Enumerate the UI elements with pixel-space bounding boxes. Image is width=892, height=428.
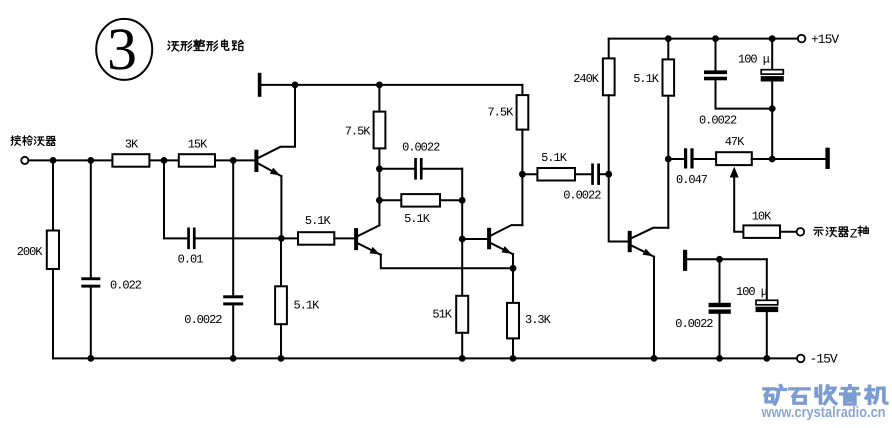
resistor 5.1K collector: [663, 59, 675, 95]
title 波形整形电路: [168, 40, 243, 51]
svg-text:0.0022: 0.0022: [675, 317, 713, 331]
supply bar top left: [258, 73, 261, 96]
node 3K-15K junction: [161, 157, 168, 164]
wire 200K branch lower: [52, 269, 54, 358]
transistor Q4: [628, 228, 668, 257]
node +15V rail 100u junction: [769, 35, 776, 42]
watermark 矿石收音机: [764, 386, 887, 404]
resistor 5.1K emitter: [275, 286, 287, 324]
resistor 5.1K coupling: [537, 168, 575, 181]
resistor 10K: [743, 225, 780, 238]
svg-text:5.1K: 5.1K: [541, 151, 568, 165]
wire -15V rail: [53, 357, 797, 359]
svg-text:3.3K: 3.3K: [525, 313, 552, 327]
resistor 3.3K: [507, 303, 519, 339]
svg-text:100 μ: 100 μ: [736, 285, 768, 299]
resistor 7.5K right: [517, 95, 529, 130]
node Q4 collector output junction: [665, 156, 672, 163]
svg-text:51K: 51K: [432, 308, 452, 322]
svg-text:+15V: +15V: [811, 32, 839, 47]
wire 0.01 to node E1: [196, 237, 282, 239]
input terminal 接检波器: [21, 157, 28, 164]
label 接检波器: [11, 136, 55, 146]
terminal bar lower right: [684, 250, 687, 270]
wire 5.1K base to Q2: [334, 237, 354, 239]
wire 0.0022 bypass lower: [716, 80, 773, 108]
node rail 100u lower junction: [763, 355, 770, 362]
svg-text:47K: 47K: [725, 135, 745, 149]
svg-text:240K: 240K: [573, 72, 600, 86]
capacitor 100u lower: [756, 300, 778, 311]
wire coupling row left: [522, 173, 537, 175]
resistor 51K: [456, 296, 468, 333]
svg-text:7.5K: 7.5K: [345, 125, 372, 139]
node rail 51K junction: [459, 355, 466, 362]
wire 7.5K right column lower to Q3 collector: [521, 130, 523, 226]
node B cap-5.1K junction: [459, 197, 466, 204]
resistor 240K: [603, 58, 615, 95]
capacitor 0.0022 lower: [709, 303, 731, 314]
wire Q2 emitter down and right: [381, 255, 513, 268]
wire 100u lower column bottom: [766, 312, 768, 359]
svg-text:3K: 3K: [125, 138, 139, 152]
node rail Q4 emitter junction: [651, 355, 658, 362]
wire 7.5K right column upper: [521, 85, 523, 95]
wire +15V rail: [609, 38, 798, 40]
node 7.5K-cap junction: [376, 165, 383, 172]
svg-text:15K: 15K: [188, 138, 208, 152]
wire 5.1K feedback branch left: [379, 199, 401, 201]
node rail 7.5K junction: [376, 82, 383, 89]
terminal 示波器Z轴: [797, 228, 805, 236]
svg-text:0.047: 0.047: [676, 173, 708, 187]
svg-text:200K: 200K: [17, 245, 44, 259]
wire output row right: [752, 158, 826, 160]
node bypass caps junction: [769, 105, 776, 112]
wire input line: [28, 159, 255, 161]
node rail 0.0022 lower junction: [716, 355, 723, 362]
wire Q4 emitter down: [653, 257, 655, 359]
node rail 5.1K emitter junction: [278, 355, 285, 362]
potentiometer 47K: [716, 152, 752, 165]
wire 0.0022 lower bypass bottom: [719, 314, 721, 359]
node rail 0.022 junction: [87, 355, 94, 362]
wire 5.1K feedback branch right: [440, 199, 462, 201]
wire coupling mid: [575, 173, 591, 175]
potentiometer 47K wiper arrow: [730, 167, 744, 232]
node rail 3.3K junction: [510, 355, 517, 362]
wire 51K lower: [461, 333, 463, 359]
svg-text:0.01: 0.01: [178, 253, 204, 267]
capacitor 100u top: [761, 70, 783, 81]
svg-text:0.0022: 0.0022: [184, 313, 222, 327]
svg-text:10K: 10K: [752, 209, 772, 223]
wire lower bypass row: [687, 258, 767, 260]
figure number circle 3: [96, 19, 152, 80]
node 7.5K-5.1K junction: [376, 197, 383, 204]
wire 7.5K column upper: [378, 85, 380, 112]
wire 0.0022 branch upper: [232, 160, 234, 295]
terminal bar output: [826, 148, 829, 168]
node lower bypass junction: [716, 256, 723, 263]
wire output row mid: [694, 158, 717, 160]
wire coupling right: [600, 173, 609, 175]
capacitor 0.0022 coupling: [591, 164, 600, 185]
capacitor 0.047: [684, 148, 694, 168]
capacitor 0.0022 left: [223, 295, 243, 305]
transistor Q1: [255, 85, 295, 176]
label 示波器Z轴: [814, 226, 869, 236]
wire 5.1K right column lower to Q4 collector: [667, 96, 669, 228]
node Q1 base junction: [230, 157, 237, 164]
svg-text:5.1K: 5.1K: [404, 212, 431, 226]
wire 10K to terminal: [780, 231, 796, 233]
svg-text:0.022: 0.022: [110, 279, 142, 293]
terminal -15V: [797, 355, 805, 363]
wire 3.3K lower: [512, 338, 514, 358]
wire 0.0022 branch lower: [232, 305, 234, 358]
node Q2-Q3 emitter junction: [510, 265, 517, 272]
wire 5.1K right column upper: [667, 39, 669, 60]
capacitor 0.0022 bypass top: [704, 70, 727, 80]
terminal +15V: [798, 35, 806, 43]
wire 200K branch upper: [52, 160, 54, 230]
node rail 0.0022 junction: [230, 355, 237, 362]
svg-text:0.0022: 0.0022: [402, 141, 440, 155]
node E1 junction: [278, 235, 285, 242]
svg-text:7.5K: 7.5K: [487, 106, 514, 120]
wire Q1 emitter to node E1: [280, 176, 282, 238]
wire 0.0022 mid branch left: [379, 168, 414, 170]
node input-0.022 junction: [87, 157, 94, 164]
wire Q3 emitter down: [512, 254, 514, 303]
node input-200K junction: [50, 157, 57, 164]
node +15V rail 5.1K junction: [665, 35, 672, 42]
resistor 3K: [112, 154, 149, 167]
svg-text:Z: Z: [850, 226, 858, 241]
wire node B to Q3 base: [462, 238, 487, 240]
capacitor 0.022: [81, 277, 100, 287]
svg-text:5.1K: 5.1K: [305, 214, 332, 228]
resistor 15K: [179, 154, 215, 167]
svg-text:0.0022: 0.0022: [563, 189, 601, 203]
capacitor 0.01: [187, 228, 195, 250]
wire 0.0022 mid branch right: [423, 168, 463, 170]
transistor Q3: [488, 225, 523, 254]
wire 240K column lower to Q4 base: [609, 95, 629, 241]
wire 0.0022 bypass upper: [715, 39, 717, 71]
wire 7.5K column lower to Q2 collector: [378, 148, 380, 225]
wire 0.0022 lower bypass upper: [719, 259, 721, 303]
wire 240K column upper: [608, 39, 610, 59]
node Q3 collector coupling junction: [519, 171, 526, 178]
svg-text:www.crystalradio.cn: www.crystalradio.cn: [761, 404, 886, 421]
capacitor 0.0022 mid: [414, 158, 422, 180]
resistor 7.5K left: [374, 112, 386, 149]
transistor Q2: [355, 225, 381, 255]
wire node E1 to 5.1K base resistor: [281, 237, 298, 239]
resistor 200K: [47, 231, 59, 270]
wire output row left: [668, 158, 684, 160]
wire 5.1K emitter lower: [280, 324, 282, 358]
wire 100u top column lower: [771, 81, 773, 159]
wire 0.01 branch vertical: [164, 160, 187, 238]
resistor 5.1K base: [298, 232, 334, 245]
node +15V rail 0.0022 junction: [712, 35, 719, 42]
wire 0.022 branch lower: [90, 288, 92, 359]
node Q4 base-240K junction: [605, 171, 612, 178]
svg-text:5.1K: 5.1K: [294, 298, 321, 312]
svg-text:100 μ: 100 μ: [738, 52, 770, 66]
svg-text:3: 3: [107, 16, 137, 82]
wire 100u top column upper: [771, 39, 773, 70]
wire node B column: [461, 169, 463, 296]
wire 0.022 branch upper: [90, 160, 92, 277]
svg-text:-15V: -15V: [810, 352, 838, 367]
svg-text:0.0022: 0.0022: [699, 114, 737, 128]
wire top rail: [261, 84, 523, 86]
wire 100u lower column upper: [766, 259, 768, 300]
node B Q3 base junction: [459, 236, 466, 243]
svg-text:5.1K: 5.1K: [633, 72, 660, 86]
wire Q1 emitter resistor column: [280, 238, 282, 286]
resistor 5.1K feedback: [401, 194, 440, 207]
node rail Q1 collector junction: [292, 82, 299, 89]
node 47K-100u junction: [769, 156, 776, 163]
